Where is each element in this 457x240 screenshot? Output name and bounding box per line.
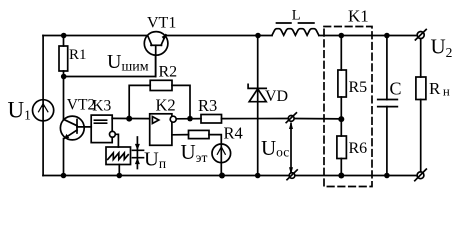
junction R6 bottom rail xyxy=(338,173,344,179)
junction R2 right leg node xyxy=(187,116,193,122)
junction VD top rail xyxy=(255,33,261,39)
svg-text:VD: VD xyxy=(265,88,288,105)
resistor Rn xyxy=(416,77,426,100)
wire K2 lower output to R4 xyxy=(172,134,189,136)
svg-text:U2: U2 xyxy=(431,35,453,61)
wire R1 column xyxy=(63,36,65,120)
wire top rail middle segment xyxy=(165,35,273,37)
source Uet xyxy=(212,144,231,163)
svg-text:R5: R5 xyxy=(349,79,368,96)
resistor R6 xyxy=(337,136,347,159)
relay contact box K1 dashed xyxy=(324,27,372,187)
wire R6 column xyxy=(340,119,342,175)
op-amp comparator K3 xyxy=(91,115,115,143)
terminal U2 top right xyxy=(415,30,426,40)
sawtooth generator xyxy=(106,147,131,165)
svg-text:U1: U1 xyxy=(8,98,31,123)
resistor R3 xyxy=(201,115,222,124)
svg-text:K1: K1 xyxy=(348,7,369,26)
junction R1 bottom / VT1 base node xyxy=(61,74,67,80)
wire top rail right segment xyxy=(319,35,417,37)
svg-text:L: L xyxy=(292,8,301,24)
junction R5 top rail xyxy=(339,33,345,39)
svg-text:Uэт: Uэт xyxy=(181,140,208,165)
wire VT2 base to K3 xyxy=(77,126,91,128)
resistor R5 xyxy=(338,70,346,97)
transistor VT2 xyxy=(60,116,84,140)
terminal bottom right xyxy=(415,169,427,181)
svg-text:R3: R3 xyxy=(198,96,217,115)
wire K3 bubble to sawtooth generator xyxy=(115,134,118,147)
wire R5 column xyxy=(340,36,342,120)
svg-text:Uшим: Uшим xyxy=(107,51,149,75)
junction Uet bottom rail xyxy=(219,173,225,179)
svg-text:VT2: VT2 xyxy=(67,97,95,114)
svg-text:R6: R6 xyxy=(349,140,368,157)
wire R4 to Uet source xyxy=(209,135,221,145)
wire top rail left segment xyxy=(43,35,148,37)
svg-text:R1: R1 xyxy=(69,47,87,63)
wire sawtooth generator to bottom rail xyxy=(118,165,120,176)
junction K3 output node xyxy=(126,116,132,122)
op-amp comparator K2 xyxy=(150,114,177,146)
svg-text:Uп: Uп xyxy=(144,149,166,172)
svg-text:Rн: Rн xyxy=(429,79,450,99)
inductor core bars xyxy=(277,22,314,24)
junction R5-R6 divider node xyxy=(338,116,344,122)
capacitor C xyxy=(378,100,398,107)
svg-text:K2: K2 xyxy=(156,96,176,115)
resistor R1 xyxy=(59,46,68,71)
wire bottom rail xyxy=(43,175,417,177)
wire R3 to feedback node xyxy=(222,118,342,120)
junction VT2 emitter bottom rail xyxy=(61,173,67,179)
svg-text:R4: R4 xyxy=(224,124,243,143)
resistor R2 xyxy=(150,80,172,90)
junction R1 top rail xyxy=(61,33,67,39)
wire VD column xyxy=(257,36,259,176)
inductor L xyxy=(272,29,319,36)
wire VT2 emitter to bottom rail xyxy=(63,139,65,176)
wire R2 feedback loop xyxy=(129,85,190,118)
svg-text:C: C xyxy=(390,79,402,99)
transistor VT1 xyxy=(144,32,168,77)
junction VD bottom rail xyxy=(255,173,261,179)
wire left vertical U1 branch xyxy=(42,36,44,176)
junction C top rail xyxy=(384,33,390,39)
svg-text:VT1: VT1 xyxy=(147,15,176,32)
svg-text:K3: K3 xyxy=(92,98,111,115)
resistor R4 xyxy=(189,130,210,138)
svg-text:Uос: Uос xyxy=(261,136,289,160)
wire K2 output to R3 xyxy=(176,118,201,120)
wire Rn column xyxy=(420,39,422,172)
zener diode VD xyxy=(248,84,266,101)
wire Uet to bottom rail xyxy=(220,144,222,175)
terminal Uoc bottom xyxy=(287,170,297,180)
measurement arrow Uoc xyxy=(289,122,293,175)
wire C column xyxy=(386,36,388,176)
terminal Uoc top xyxy=(286,113,296,123)
source U1 xyxy=(33,100,54,121)
junction generator bottom rail xyxy=(117,173,123,179)
svg-text:R2: R2 xyxy=(159,64,178,81)
wire K3 output to K2 input xyxy=(112,117,150,119)
wire Ushim node to VT1 base xyxy=(64,55,156,77)
junction C bottom rail xyxy=(384,173,390,179)
measurement arrow Up sawtooth amplitude xyxy=(133,137,144,169)
